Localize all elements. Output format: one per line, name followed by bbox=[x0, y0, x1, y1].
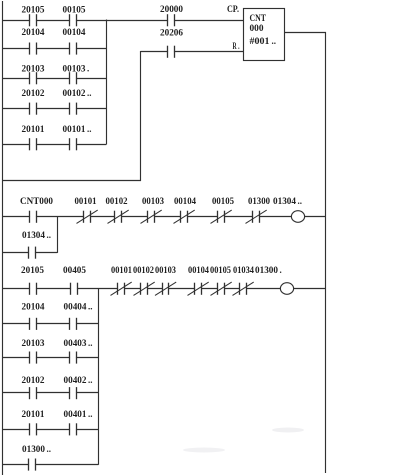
contact 20103 (normally open) bbox=[22, 63, 46, 84]
svg-text:00105: 00105 bbox=[210, 265, 231, 275]
svg-text:00103: 00103 bbox=[142, 196, 164, 206]
svg-text:00402: 00402 bbox=[64, 375, 88, 385]
svg-text:CNT: CNT bbox=[250, 13, 267, 23]
svg-text:20101: 20101 bbox=[22, 409, 46, 419]
svg-text:20000: 20000 bbox=[160, 4, 184, 14]
wire network3 branch row4 bbox=[2, 392, 99, 394]
svg-text:00101: 00101 bbox=[111, 265, 132, 275]
wire network1 branch row3 bbox=[2, 78, 106, 80]
wire network3 branch row5 bbox=[2, 429, 99, 431]
wire right output rail bbox=[325, 32, 327, 473]
svg-text:00102: 00102 bbox=[133, 265, 154, 275]
contact 01300 (normally closed) bbox=[246, 196, 271, 224]
wire network2 branch wire bbox=[2, 252, 57, 254]
contact 00405 (normally open) bbox=[63, 265, 87, 295]
svg-text:01300: 01300 bbox=[22, 444, 46, 454]
wire network3 branch row3 bbox=[2, 357, 99, 359]
svg-text:00103: 00103 bbox=[155, 265, 176, 275]
svg-text:20103: 20103 bbox=[22, 63, 46, 73]
wire network1 branch row2 bbox=[2, 48, 106, 50]
svg-text:..: .. bbox=[298, 196, 303, 206]
contact 20105 (normally open) bbox=[22, 4, 46, 26]
contact 00102 (normally closed) bbox=[106, 196, 129, 224]
wire network2 rung (coil 01304) bbox=[2, 216, 326, 218]
svg-text:00101: 00101 bbox=[63, 124, 87, 134]
svg-text:..: .. bbox=[87, 124, 92, 134]
svg-text:00103: 00103 bbox=[63, 63, 87, 73]
contact 00105 (normally closed) bbox=[211, 196, 235, 224]
svg-text:00102: 00102 bbox=[106, 196, 128, 206]
contact 20104 (normally open) bbox=[22, 27, 46, 55]
contact 00102 (normally closed) bbox=[133, 265, 155, 296]
svg-text:01034: 01034 bbox=[233, 265, 254, 275]
svg-text:..: .. bbox=[47, 230, 52, 240]
wire network3 branch junction vertical bbox=[98, 288, 100, 465]
contact 00103 (normally open) bbox=[63, 63, 90, 84]
contact 20206 (normally open) bbox=[160, 27, 184, 58]
svg-text:00401: 00401 bbox=[64, 409, 88, 419]
svg-text:000: 000 bbox=[250, 23, 265, 33]
wire network3 branch row2 bbox=[2, 323, 99, 325]
contact 01304 (normally open) bbox=[22, 230, 51, 259]
svg-text:20206: 20206 bbox=[160, 27, 184, 37]
contact 00104 (normally closed) bbox=[188, 265, 210, 296]
svg-text:00105: 00105 bbox=[212, 196, 234, 206]
svg-text:00403: 00403 bbox=[64, 338, 88, 348]
wire network2 branch junction vertical bbox=[57, 216, 59, 253]
contact 00101 (normally closed) bbox=[111, 265, 133, 296]
wire counter output wire bbox=[285, 32, 327, 34]
contact 01034 (normally closed) bbox=[233, 265, 255, 296]
faint watermark smudge (decorative-like ghost text) bbox=[183, 428, 304, 453]
svg-text:..: .. bbox=[88, 338, 93, 348]
svg-text:CP.: CP. bbox=[227, 4, 239, 14]
contact 20105 (normally open) bbox=[21, 265, 45, 295]
wire network1 reset bottom wire bbox=[2, 180, 141, 182]
contact 00401 (normally open) bbox=[64, 409, 93, 436]
svg-text:.: . bbox=[87, 63, 89, 73]
svg-text:00405: 00405 bbox=[63, 265, 87, 275]
svg-text:01304: 01304 bbox=[22, 230, 46, 240]
svg-text:20103: 20103 bbox=[22, 338, 46, 348]
contact 00101 (normally open) bbox=[63, 124, 92, 151]
contact 00103 (normally closed) bbox=[141, 196, 165, 224]
contact 00403 (normally open) bbox=[64, 338, 93, 364]
svg-text:..: .. bbox=[47, 444, 52, 454]
svg-text:..: .. bbox=[88, 375, 93, 385]
contact 00102 (normally open) bbox=[63, 88, 92, 115]
contact 01300 (normally open) bbox=[22, 444, 51, 471]
svg-text:00404: 00404 bbox=[64, 301, 88, 311]
wire network1 reset rung (to counter R) bbox=[141, 51, 245, 53]
svg-text:..: .. bbox=[87, 88, 92, 98]
svg-text:00102: 00102 bbox=[63, 88, 87, 98]
contact 00104 (normally closed) bbox=[174, 196, 197, 224]
svg-text:20101: 20101 bbox=[22, 124, 46, 134]
svg-text:20104: 20104 bbox=[22, 301, 46, 311]
svg-text:..: .. bbox=[88, 409, 93, 419]
contact 00105 (normally open) bbox=[63, 4, 87, 26]
svg-text:00105: 00105 bbox=[63, 4, 87, 14]
svg-text:01300: 01300 bbox=[255, 265, 279, 275]
contact 00404 (normally open) bbox=[64, 301, 93, 330]
svg-text:#001: #001 bbox=[250, 36, 271, 46]
contact 20102 (normally open) bbox=[22, 375, 46, 399]
contact CNT000 (normally open) bbox=[20, 196, 53, 223]
contact 20102 (normally open) bbox=[22, 88, 46, 115]
svg-text:00104: 00104 bbox=[63, 27, 87, 37]
contact 00105 (normally closed) bbox=[210, 265, 232, 296]
contact 20104 (normally open) bbox=[22, 301, 46, 330]
wire network3 branch row6 bbox=[2, 464, 99, 466]
svg-text:CNT000: CNT000 bbox=[20, 196, 53, 206]
svg-text:20102: 20102 bbox=[22, 375, 46, 385]
output coil 01304 bbox=[273, 196, 305, 223]
svg-text:..: .. bbox=[88, 301, 93, 311]
svg-text:00104: 00104 bbox=[174, 196, 196, 206]
svg-text:20104: 20104 bbox=[22, 27, 46, 37]
svg-text:01304: 01304 bbox=[273, 196, 297, 206]
contact 20101 (normally open) bbox=[22, 409, 46, 436]
svg-text:00101: 00101 bbox=[75, 196, 97, 206]
wire left power rail bbox=[2, 1, 4, 475]
svg-text:01300: 01300 bbox=[248, 196, 270, 206]
contact 20103 (normally open) bbox=[22, 338, 46, 364]
contact 00101 (normally closed) bbox=[75, 196, 98, 224]
wire network1 branch junction vertical bbox=[106, 20, 108, 145]
svg-text:.: . bbox=[280, 265, 282, 275]
wire network1 branch row5 bbox=[2, 144, 106, 146]
output coil 01300 bbox=[255, 265, 294, 295]
contact 00402 (normally open) bbox=[64, 375, 93, 399]
wire network3 rung (coil 01300) bbox=[2, 288, 326, 290]
wire network1 rung1 (to counter CP) bbox=[2, 20, 244, 22]
wire network1 reset drop vertical bbox=[140, 51, 142, 181]
svg-text:20105: 20105 bbox=[22, 4, 46, 14]
counter U1 CNT 000 #001 box bbox=[244, 9, 285, 61]
svg-text:R .: R . bbox=[233, 41, 240, 51]
contact 00103 (normally closed) bbox=[155, 265, 176, 296]
contact 20000 (normally open) bbox=[160, 4, 184, 27]
wire network1 branch row4 bbox=[2, 108, 106, 110]
svg-text:..: .. bbox=[272, 36, 277, 46]
svg-text:20102: 20102 bbox=[22, 88, 46, 98]
svg-text:00104: 00104 bbox=[188, 265, 209, 275]
contact 00104 (normally open) bbox=[63, 27, 87, 55]
contact 20101 (normally open) bbox=[22, 124, 46, 151]
svg-text:20105: 20105 bbox=[21, 265, 45, 275]
